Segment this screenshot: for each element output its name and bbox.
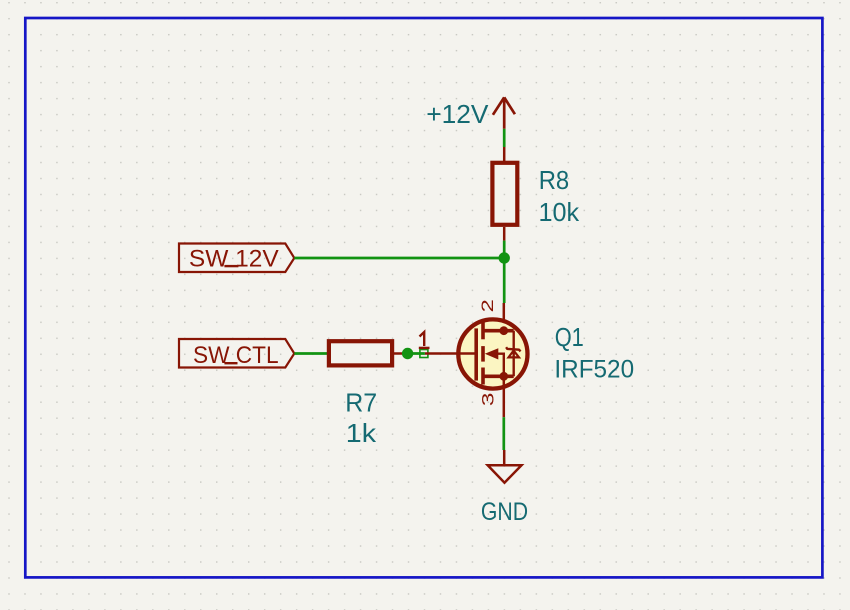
channel bottom dash [481, 368, 485, 385]
pin end marker square [420, 350, 428, 358]
svg-text:R7: R7 [345, 388, 377, 418]
svg-text:Q1: Q1 [555, 322, 584, 352]
channel top dash [481, 323, 485, 340]
resistor R8 [492, 147, 517, 241]
channel middle dash [481, 346, 485, 362]
svg-text:2: 2 [478, 299, 497, 312]
power symbol +12V [493, 97, 515, 128]
wire from SW_CTL to R7 [294, 352, 327, 355]
pin 2 of Q1 [478, 299, 504, 331]
wire from Q1 source to GND [502, 417, 505, 450]
pin 1 of Q1 [419, 332, 476, 354]
svg-text:R8: R8 [539, 165, 570, 195]
hierarchical label SW_12V [179, 244, 294, 273]
node junction at R8 / SW_12V [499, 252, 510, 263]
wire from node to Q1 drain [503, 258, 506, 303]
drain connection line [483, 329, 514, 333]
body connection line [498, 354, 504, 377]
ground symbol GND [481, 450, 528, 526]
transistor Q1 internal graphics [476, 323, 520, 385]
svg-text:GND: GND [481, 498, 528, 526]
svg-text:+12V: +12V [426, 99, 489, 129]
pin 3 of Q1 [479, 376, 504, 417]
svg-text:IRF520: IRF520 [554, 356, 634, 384]
drain junction dot [499, 326, 508, 335]
source connection line [483, 374, 514, 378]
wire from +12V to R8 [503, 129, 506, 147]
svg-text:10k: 10k [539, 197, 581, 227]
svg-text:3: 3 [479, 393, 498, 407]
resistor R7 [329, 341, 403, 365]
wire from node to gate pin [408, 352, 425, 355]
gate bar [474, 328, 478, 380]
body diode triangle [509, 351, 520, 358]
wire from R8 to node [503, 241, 506, 258]
svg-text:SW 12V: SW 12V [189, 245, 279, 272]
body diode vertical [513, 331, 515, 377]
wire SW_12V net horizontal [294, 257, 504, 260]
body diode cathode bar [506, 347, 520, 351]
source junction dot [499, 372, 508, 381]
transistor Q1 arrow [485, 348, 499, 359]
hierarchical label SW_CTL [179, 339, 294, 369]
svg-text:SW CTL: SW CTL [193, 342, 279, 369]
transistor Q1 body circle [458, 319, 527, 388]
svg-text:1k: 1k [346, 418, 377, 448]
node junction at R7 / Q1 gate [402, 348, 413, 359]
